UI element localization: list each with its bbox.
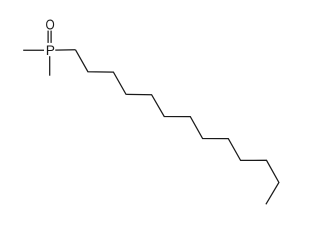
methyl bond left from P xyxy=(23,49,44,51)
methyl bond down from P xyxy=(49,56,51,75)
bond P to C1 xyxy=(55,49,75,51)
svg-text:O: O xyxy=(46,17,55,33)
svg-text:P: P xyxy=(46,43,55,58)
alkyl chain C1..C13 xyxy=(76,50,279,205)
double bond P=O (two parallel vertical lines) xyxy=(47,31,49,43)
